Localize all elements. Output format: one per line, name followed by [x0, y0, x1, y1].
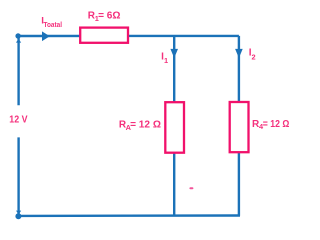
svg-text:= 6Ω: = 6Ω — [98, 11, 120, 22]
svg-text:12 V: 12 V — [9, 115, 27, 126]
resistor RA = 12 ohm (box) — [165, 102, 184, 153]
arrow: I2 down-pointing on right branch — [235, 49, 243, 58]
svg-text:= 12 Ω: = 12 Ω — [263, 119, 290, 130]
svg-text:1: 1 — [164, 56, 168, 65]
wire: bottom horizontal — [19, 214, 240, 217]
resistor R4 = 12 ohm (box) — [230, 102, 249, 152]
wire: right vertical — [238, 36, 240, 216]
svg-text:Toatal: Toatal — [44, 20, 63, 29]
wire: middle branch vertical — [173, 36, 175, 216]
arrow: small down-pointing above bottom-left node — [16, 211, 21, 215]
arrow: small up-pointing below top-left node — [16, 39, 21, 43]
wire: left vertical upper segment — [17, 36, 19, 105]
svg-text:2: 2 — [252, 52, 256, 61]
wire: top horizontal — [19, 35, 239, 37]
arrow: I_total right-pointing on top wire — [42, 31, 50, 41]
label minus sign — [189, 187, 193, 189]
node: top-left junction dot — [15, 33, 20, 38]
svg-text:= 12 Ω: = 12 Ω — [130, 120, 161, 131]
arrow: I1 down-pointing on middle branch — [170, 49, 178, 58]
wire: left vertical lower segment — [17, 137, 19, 216]
resistor R1 = 6 ohm (box) — [80, 28, 128, 43]
node: bottom-left junction dot — [15, 213, 21, 219]
